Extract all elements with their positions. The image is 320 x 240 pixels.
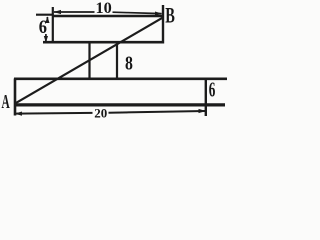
svg-text:6: 6 [209, 77, 216, 101]
svg-text:8: 8 [125, 53, 133, 74]
svg-text:A: A [2, 92, 10, 113]
svg-text:B: B [165, 3, 175, 28]
svg-text:6: 6 [39, 18, 47, 38]
svg-text:20: 20 [94, 105, 107, 120]
svg-text:10: 10 [96, 0, 112, 17]
